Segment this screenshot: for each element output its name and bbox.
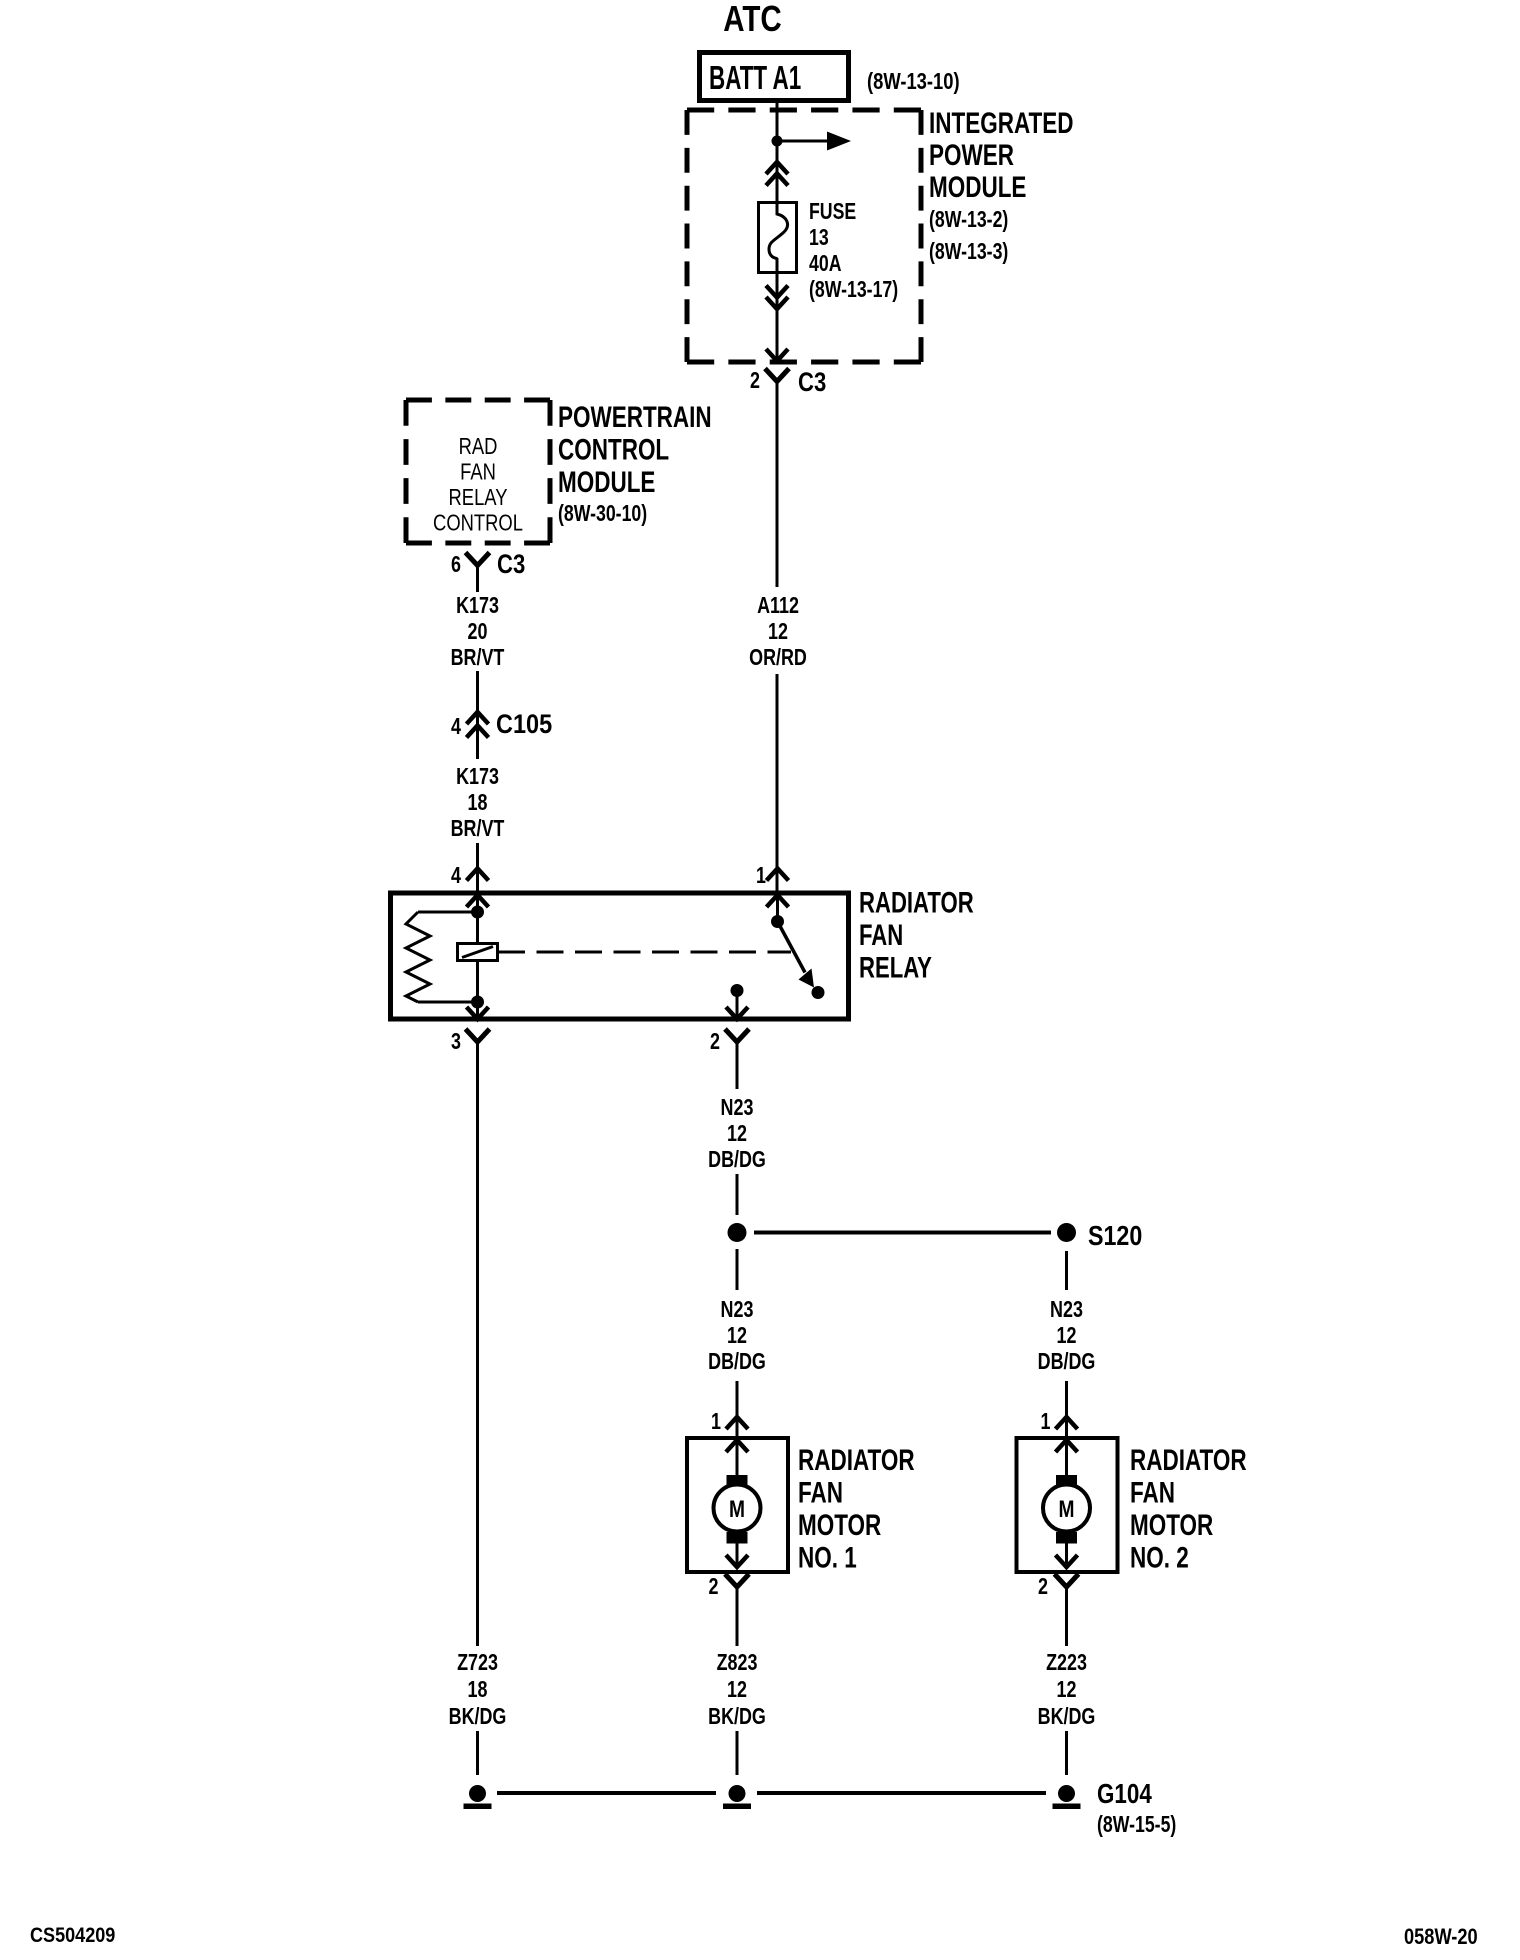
svg-text:BK/DG: BK/DG (1038, 1704, 1096, 1730)
svg-text:(8W-13-2): (8W-13-2) (929, 207, 1008, 233)
svg-text:CONTROL: CONTROL (558, 432, 669, 466)
svg-text:FAN: FAN (1130, 1475, 1175, 1509)
svg-text:20: 20 (468, 619, 488, 645)
svg-text:BR/VT: BR/VT (451, 645, 505, 671)
svg-text:RAD: RAD (459, 434, 498, 459)
svg-text:Z723: Z723 (457, 1650, 498, 1676)
svg-text:BR/VT: BR/VT (451, 816, 505, 842)
svg-text:M: M (1059, 1495, 1075, 1523)
svg-text:2: 2 (709, 1574, 719, 1600)
svg-text:Z823: Z823 (717, 1650, 758, 1676)
svg-text:FAN: FAN (859, 918, 903, 952)
svg-text:12: 12 (1057, 1323, 1077, 1349)
svg-text:CS504209: CS504209 (30, 1924, 115, 1948)
svg-text:12: 12 (727, 1677, 747, 1703)
svg-text:N23: N23 (721, 1297, 754, 1323)
svg-text:BK/DG: BK/DG (708, 1704, 766, 1730)
svg-text:12: 12 (727, 1323, 747, 1349)
svg-text:(8W-13-3): (8W-13-3) (929, 239, 1008, 265)
svg-text:A112: A112 (757, 593, 799, 619)
svg-text:POWER: POWER (929, 138, 1014, 172)
svg-text:FAN: FAN (460, 460, 496, 485)
svg-text:DB/DG: DB/DG (708, 1147, 766, 1173)
svg-text:INTEGRATED: INTEGRATED (929, 106, 1074, 140)
svg-text:FAN: FAN (798, 1475, 843, 1509)
svg-text:MOTOR: MOTOR (1130, 1508, 1213, 1542)
svg-text:RADIATOR: RADIATOR (859, 885, 974, 919)
svg-text:(8W-30-10): (8W-30-10) (558, 501, 647, 527)
svg-text:12: 12 (1057, 1677, 1077, 1703)
svg-text:MOTOR: MOTOR (798, 1508, 881, 1542)
svg-text:DB/DG: DB/DG (708, 1349, 766, 1375)
svg-text:RADIATOR: RADIATOR (1130, 1443, 1247, 1477)
svg-text:POWERTRAIN: POWERTRAIN (558, 400, 712, 434)
svg-text:K173: K173 (456, 764, 499, 790)
svg-text:DB/DG: DB/DG (1038, 1349, 1096, 1375)
svg-text:C3: C3 (798, 368, 826, 398)
svg-text:K173: K173 (456, 593, 499, 619)
svg-text:FUSE: FUSE (809, 199, 856, 225)
svg-text:4: 4 (451, 863, 461, 889)
svg-text:N23: N23 (1050, 1297, 1083, 1323)
svg-text:C105: C105 (496, 710, 552, 740)
svg-text:2: 2 (710, 1029, 720, 1055)
svg-text:Z223: Z223 (1046, 1650, 1087, 1676)
svg-text:13: 13 (809, 225, 829, 251)
svg-text:CONTROL: CONTROL (433, 511, 523, 536)
svg-text:MODULE: MODULE (929, 170, 1026, 204)
svg-text:4: 4 (451, 714, 461, 740)
svg-text:NO. 1: NO. 1 (798, 1540, 857, 1574)
svg-text:RADIATOR: RADIATOR (798, 1443, 915, 1477)
svg-text:(8W-15-5): (8W-15-5) (1097, 1812, 1176, 1838)
svg-text:2: 2 (750, 368, 760, 394)
svg-text:BATT A1: BATT A1 (709, 59, 801, 96)
svg-text:BK/DG: BK/DG (449, 1704, 507, 1730)
svg-text:G104: G104 (1097, 1779, 1152, 1810)
svg-text:6: 6 (451, 552, 461, 578)
svg-text:(8W-13-10): (8W-13-10) (867, 69, 960, 94)
svg-text:058W-20: 058W-20 (1404, 1926, 1478, 1950)
svg-text:RELAY: RELAY (449, 485, 508, 510)
svg-text:M: M (729, 1495, 745, 1523)
svg-text:2: 2 (1038, 1574, 1048, 1600)
svg-text:1: 1 (756, 863, 766, 889)
svg-text:RELAY: RELAY (859, 950, 932, 984)
svg-text:NO. 2: NO. 2 (1130, 1540, 1189, 1574)
svg-text:18: 18 (468, 1677, 488, 1703)
svg-text:3: 3 (451, 1029, 461, 1055)
svg-text:MODULE: MODULE (558, 465, 655, 499)
svg-text:(8W-13-17): (8W-13-17) (809, 277, 898, 303)
svg-text:12: 12 (768, 619, 788, 645)
svg-text:S120: S120 (1088, 1221, 1142, 1251)
svg-text:ATC: ATC (723, 0, 781, 39)
svg-text:N23: N23 (721, 1095, 754, 1121)
svg-text:40A: 40A (809, 251, 842, 277)
svg-text:1: 1 (711, 1409, 721, 1435)
svg-text:18: 18 (468, 790, 488, 816)
svg-text:12: 12 (727, 1121, 747, 1147)
svg-text:1: 1 (1041, 1409, 1051, 1435)
svg-text:OR/RD: OR/RD (749, 645, 807, 671)
svg-text:C3: C3 (497, 550, 525, 580)
